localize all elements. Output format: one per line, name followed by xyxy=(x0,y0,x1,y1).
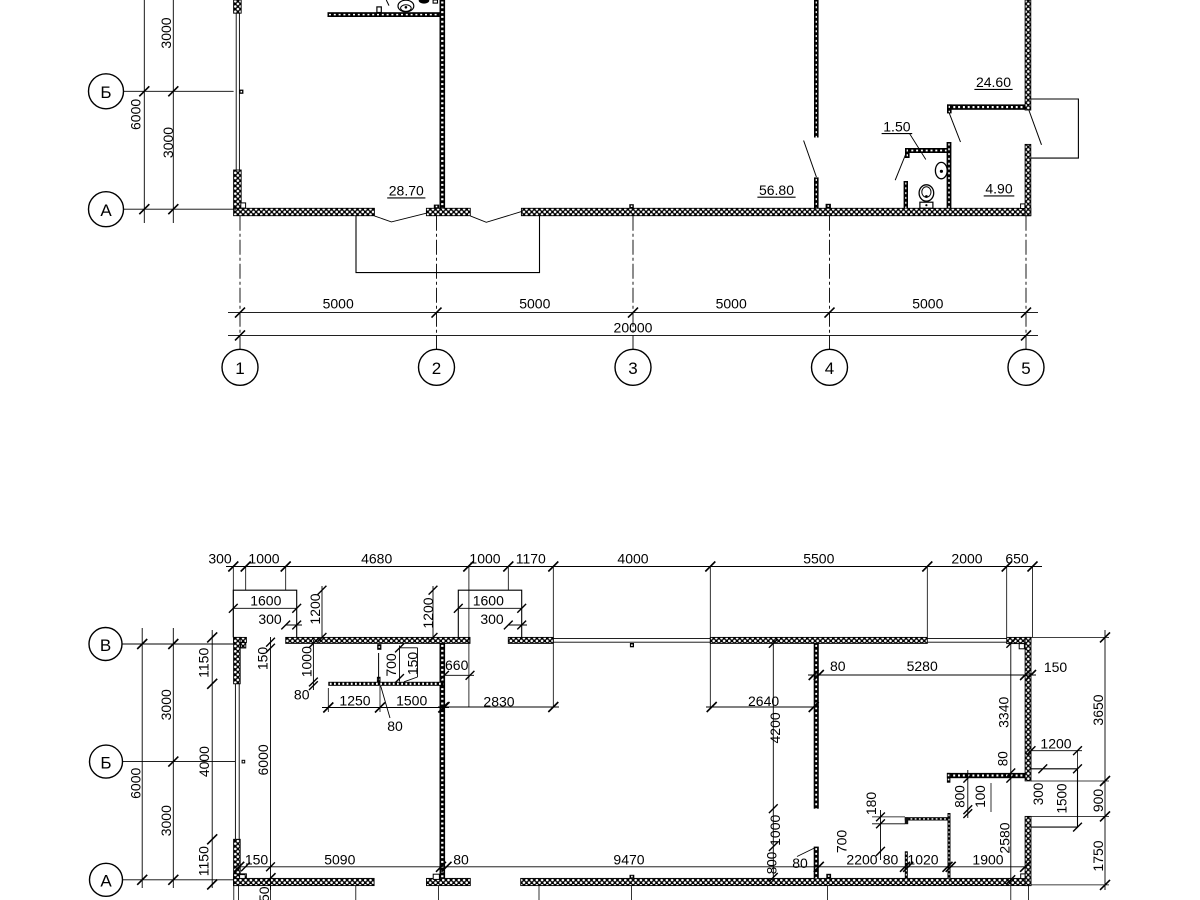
svg-text:800: 800 xyxy=(952,785,967,808)
marker: v1 wall marker on bottom wall xyxy=(434,205,439,209)
wall: ground v2 lower pier (dashed) xyxy=(814,847,819,879)
svg-text:2830: 2830 xyxy=(483,694,514,710)
witness door top xyxy=(1031,780,1109,782)
svg-text:1500: 1500 xyxy=(1054,783,1069,813)
svg-text:Б: Б xyxy=(100,83,111,102)
window bracket 1 with 1600/300 dims xyxy=(233,590,296,637)
fixture: washroom toilet bowl (cut at top) xyxy=(398,0,414,12)
marker: axis B window marker upper plan xyxy=(239,90,243,94)
svg-text:1500: 1500 xyxy=(396,692,427,708)
svg-text:3000: 3000 xyxy=(158,17,174,48)
axis circle 3 xyxy=(615,349,651,385)
door leaf: toilet room door xyxy=(895,154,906,181)
dim: 660 xyxy=(445,674,475,676)
svg-text:700: 700 xyxy=(834,830,850,854)
notch: upper plan bottom right inner corner xyxy=(1021,204,1025,209)
svg-text:80: 80 xyxy=(387,718,403,734)
svg-text:4000: 4000 xyxy=(617,550,648,566)
axis line 4 xyxy=(829,216,831,350)
svg-text:1170: 1170 xyxy=(516,550,546,566)
notch: top-right inner corner white step xyxy=(1019,644,1024,649)
svg-text:1: 1 xyxy=(235,359,244,378)
axis line Б xyxy=(124,90,234,92)
partition: door pier v4 xyxy=(905,851,908,878)
witness bottom right xyxy=(1031,884,1109,886)
svg-text:24.60: 24.60 xyxy=(976,74,1011,90)
svg-text:5280: 5280 xyxy=(907,658,938,674)
svg-text:80: 80 xyxy=(883,852,899,868)
wall: divider between 24.60 and 4.90 (dashed) xyxy=(947,104,1025,109)
marker: below top wall at partition line xyxy=(377,644,381,650)
axis line А xyxy=(124,208,237,210)
dim line 6000 ground xyxy=(141,628,143,888)
wall: upper plan v2 lower pier (dashed) xyxy=(814,177,819,208)
door leaf: room 56.80 door xyxy=(804,141,817,178)
svg-text:1150: 1150 xyxy=(195,846,211,876)
wall: ground room divider h4 (dashed) xyxy=(947,773,1025,778)
wall: h4 left end cap xyxy=(947,773,951,783)
svg-text:Б: Б xyxy=(100,753,111,772)
wall: ground top wall right corner xyxy=(1007,637,1031,643)
window: ground left wall window xyxy=(234,684,236,840)
door leaf: washroom door (cut) xyxy=(386,0,389,6)
vertical 1200 dims at window brackets xyxy=(321,586,323,637)
wall: upper plan bottom wall door pier xyxy=(426,208,470,215)
axis line 5 xyxy=(1025,216,1027,350)
wall: ground top wall segment B xyxy=(508,637,553,643)
svg-text:1200: 1200 xyxy=(420,597,436,628)
axis line 1 xyxy=(239,216,241,350)
svg-text:1600: 1600 xyxy=(473,593,504,609)
svg-text:28.70: 28.70 xyxy=(389,183,424,199)
witness lines below ground plan (cut off) xyxy=(233,886,235,900)
opening mark: doorway 1 zigzag xyxy=(374,213,426,222)
axis line 3 xyxy=(632,216,634,350)
partition: closet partition v3 xyxy=(948,813,951,878)
wall: ground left wall lower pier xyxy=(234,839,241,885)
svg-text:56.80: 56.80 xyxy=(759,182,794,198)
dim line: 20000 row xyxy=(228,334,1038,336)
door leaf: partition h1 door open xyxy=(378,653,380,681)
wall: toilet room left pier (dashed) xyxy=(904,181,908,208)
axis circle А upper plan xyxy=(89,192,124,227)
svg-text:А: А xyxy=(100,201,112,220)
axis circle 1 xyxy=(222,349,258,385)
wall: toilet room top wall left cap xyxy=(905,148,910,158)
axis circle В ground xyxy=(89,628,122,661)
dim: 700/150 at partition door xyxy=(399,646,401,682)
wall: ground top wall segment C xyxy=(710,637,927,643)
porch: entrance porch outline xyxy=(356,216,540,273)
wall: upper plan left exterior wall top stub xyxy=(234,0,242,13)
dim line 1150/4000 ground xyxy=(211,630,213,888)
leader from 150 xyxy=(404,677,418,682)
svg-text:80: 80 xyxy=(830,658,846,674)
dim: 800/100 vertical near v3 xyxy=(967,770,969,818)
door leaf: door 24.60 to 4.90 xyxy=(949,112,961,142)
svg-text:2: 2 xyxy=(432,359,441,378)
notch: upper plan bottom-left inner corner xyxy=(241,203,246,208)
axis circle Б upper plan xyxy=(89,74,124,109)
axis circle Б ground xyxy=(90,745,123,778)
dim: 2830 row xyxy=(438,706,559,708)
wall: upper plan left exterior wall lower pier xyxy=(234,170,242,208)
wall: divider left end cap xyxy=(947,104,952,113)
marker: axis 3 on bottom wall ground xyxy=(630,875,635,879)
svg-text:1200: 1200 xyxy=(1040,736,1071,752)
porch: ground right porch outline xyxy=(1031,769,1078,827)
wall: toilet room right wall (dashed) xyxy=(947,142,952,208)
tick: porch top right corner xyxy=(1073,764,1082,773)
svg-text:150: 150 xyxy=(245,852,269,868)
wall: ground interior wall v2 (dashed) xyxy=(814,643,819,808)
wall: ground top-left corner block xyxy=(234,637,247,642)
wall: ground top wall segment A xyxy=(286,637,470,643)
partition: h3 left end cap xyxy=(905,817,908,824)
svg-text:1900: 1900 xyxy=(972,852,1003,868)
porch: right side porch outline xyxy=(1031,99,1079,158)
dim: 4200/1000/800 vertical at v2 xyxy=(772,643,774,878)
opening mark: doorway 2 zigzag xyxy=(470,212,521,223)
leader: 1.50 label leader xyxy=(910,134,926,160)
wall: upper plan bottom wall segment 1 xyxy=(234,208,375,215)
leader 100 xyxy=(990,783,992,812)
dim: 3340/80/2580 vertical xyxy=(1010,643,1012,885)
tick: porch 300 xyxy=(1038,764,1047,773)
svg-text:2200: 2200 xyxy=(846,852,877,868)
wall: ground bottom wall segment 3 xyxy=(521,878,1031,885)
svg-text:300: 300 xyxy=(258,611,282,627)
svg-text:5: 5 xyxy=(1021,359,1030,378)
svg-text:4200: 4200 xyxy=(767,712,783,743)
axis circle 5 xyxy=(1008,349,1044,385)
door leaf: exterior door to right porch xyxy=(1029,111,1042,145)
marker: axis 3 marker on bottom wall xyxy=(629,204,634,208)
svg-text:5000: 5000 xyxy=(912,296,943,312)
marker: axis 4 on bottom wall ground xyxy=(826,874,831,879)
svg-text:1000: 1000 xyxy=(767,815,783,846)
notch: white square left of v1 ground plan xyxy=(433,874,439,879)
svg-text:3: 3 xyxy=(628,359,637,378)
dim line: 3000 column xyxy=(172,0,174,223)
wall: upper plan interior wall v1 (dashed) xyxy=(440,0,446,208)
svg-text:5500: 5500 xyxy=(803,550,834,566)
wall: toilet room top wall (dashed) xyxy=(905,148,949,153)
svg-text:150: 150 xyxy=(1044,659,1068,675)
wall: ground left wall upper pier xyxy=(234,637,241,683)
svg-text:900: 900 xyxy=(1090,789,1106,813)
dim: 2640 row xyxy=(706,706,819,708)
dim: interior 150/6000 vertical line at left xyxy=(270,637,272,890)
svg-text:1000: 1000 xyxy=(469,550,500,566)
window: ground top wall window 2 (2000 zone) xyxy=(927,638,1006,640)
wall: ground bottom-left corner block xyxy=(234,874,247,886)
axis circle А ground xyxy=(90,863,123,896)
dim: 1200 porch top xyxy=(1031,750,1082,752)
marker: axis 4 marker on bottom wall xyxy=(826,204,831,209)
svg-text:9470: 9470 xyxy=(613,852,644,868)
wall: ground right wall lower xyxy=(1025,816,1031,885)
tick: porch bottom right corner xyxy=(1073,823,1082,832)
partition: closet partition h3 xyxy=(905,817,951,820)
svg-text:80: 80 xyxy=(294,686,310,702)
partition: ground washroom partition h1 xyxy=(328,682,443,686)
leader 80 v2 pier xyxy=(797,848,815,857)
window: upper plan left wall window xyxy=(235,13,237,170)
svg-text:300: 300 xyxy=(480,611,504,627)
svg-text:5000: 5000 xyxy=(519,296,550,312)
svg-text:3000: 3000 xyxy=(158,805,174,836)
leader: 80 to partition post xyxy=(381,686,390,718)
axis line 2 xyxy=(436,216,438,350)
svg-text:1.50: 1.50 xyxy=(883,118,910,134)
axis circle 2 xyxy=(419,349,455,385)
wall: ground right wall upper xyxy=(1025,637,1031,781)
svg-text:80: 80 xyxy=(996,751,1011,766)
fixture: washroom sink (cut at top) xyxy=(419,0,429,3)
wall: upper plan right exterior wall lower xyxy=(1025,144,1031,215)
wall: upper plan bottom wall segment 3 xyxy=(521,208,1030,215)
dim: 1000/80 at washroom xyxy=(312,640,314,690)
svg-text:3000: 3000 xyxy=(160,127,176,158)
svg-text:2580: 2580 xyxy=(997,822,1013,853)
witness door bottom xyxy=(1031,815,1109,817)
wall: ground interior wall v1 (dashed) xyxy=(440,643,446,878)
notch: bottom-right inner corner white step xyxy=(1021,874,1025,879)
svg-text:1600: 1600 xyxy=(250,593,281,609)
wall: upper plan right exterior wall upper xyxy=(1025,0,1031,110)
wall: upper plan interior wall v2 upper (dashed) xyxy=(814,0,819,138)
svg-text:800: 800 xyxy=(765,852,780,875)
svg-text:150: 150 xyxy=(405,652,421,676)
svg-text:6000: 6000 xyxy=(255,744,271,775)
dim line: top chain xyxy=(226,566,1042,568)
fixture: toilet room wall sink xyxy=(935,162,947,178)
dim line 3000 ground xyxy=(172,628,174,888)
notch: bottom-left corner white step xyxy=(240,875,246,880)
svg-text:1000: 1000 xyxy=(248,550,279,566)
dim line: 5000 row xyxy=(228,312,1038,314)
dim: bottom interior row 150/5090/80/9470/... xyxy=(236,866,1026,868)
dim: 180/700 closet door vertical xyxy=(872,816,905,818)
svg-text:6000: 6000 xyxy=(128,99,144,130)
svg-text:650: 650 xyxy=(1005,550,1029,566)
svg-text:100: 100 xyxy=(973,785,988,808)
svg-text:150: 150 xyxy=(255,647,271,671)
svg-text:1750: 1750 xyxy=(1090,840,1106,871)
svg-text:1200: 1200 xyxy=(307,593,323,624)
svg-text:1250: 1250 xyxy=(339,692,370,708)
svg-text:80: 80 xyxy=(453,852,469,868)
axis line В xyxy=(122,643,234,645)
marker: axis Б window marker ground plan xyxy=(242,760,246,764)
svg-text:3650: 3650 xyxy=(1090,694,1106,725)
svg-text:5090: 5090 xyxy=(324,852,355,868)
svg-text:1000: 1000 xyxy=(299,646,315,677)
svg-text:6000: 6000 xyxy=(128,768,144,799)
window: ground top wall window 1 (4000 zone) xyxy=(553,638,710,640)
svg-text:660: 660 xyxy=(445,657,469,673)
svg-text:А: А xyxy=(100,872,112,891)
axis line Б ground xyxy=(123,761,236,763)
svg-text:1150: 1150 xyxy=(256,886,272,900)
dim: 1250/1500 partition row xyxy=(327,688,329,712)
axis circle 4 xyxy=(812,349,848,385)
witness lines from top chain xyxy=(232,567,234,638)
svg-text:4680: 4680 xyxy=(361,550,392,566)
dim line: 6000 column xyxy=(143,0,145,223)
window bracket 2 with 1600/300 dims xyxy=(458,590,521,637)
svg-text:180: 180 xyxy=(863,792,879,816)
witness top right xyxy=(1031,636,1109,638)
svg-text:700: 700 xyxy=(383,653,399,677)
svg-text:1020: 1020 xyxy=(907,852,938,868)
dim: 5280 row xyxy=(808,674,1036,676)
svg-text:5000: 5000 xyxy=(323,296,354,312)
svg-text:4: 4 xyxy=(825,359,834,378)
svg-text:300: 300 xyxy=(1031,783,1046,806)
fixture: WC bowl and tank xyxy=(919,185,934,201)
svg-text:2640: 2640 xyxy=(748,693,779,709)
wall: ground bottom wall pier at v1 xyxy=(427,878,471,885)
svg-text:300: 300 xyxy=(208,550,232,566)
svg-text:4.90: 4.90 xyxy=(985,181,1012,197)
svg-text:3000: 3000 xyxy=(158,689,174,720)
partition: upper washroom partition xyxy=(328,12,440,17)
axis line А ground xyxy=(123,879,234,881)
marker: door post on partition h1 xyxy=(377,677,381,682)
svg-text:3340: 3340 xyxy=(995,697,1011,728)
svg-text:В: В xyxy=(100,636,111,655)
svg-text:2000: 2000 xyxy=(951,550,982,566)
svg-text:5000: 5000 xyxy=(716,296,747,312)
svg-text:80: 80 xyxy=(792,855,808,871)
dim line right xyxy=(1104,630,1106,890)
wall: ground bottom wall segment 1 xyxy=(234,878,375,885)
wall: ground corner step square xyxy=(241,643,246,648)
fixture: small box on wall (cut) xyxy=(433,0,437,3)
fixture: small pipe marker on partition xyxy=(377,7,381,13)
svg-text:1150: 1150 xyxy=(195,648,211,678)
marker: axis 3 below top window xyxy=(630,643,634,647)
